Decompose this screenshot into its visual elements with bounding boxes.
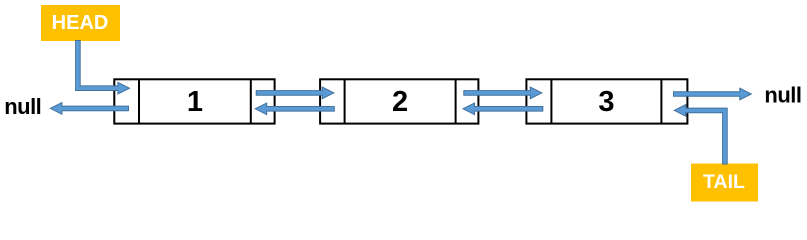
HEAD label box xyxy=(41,5,120,41)
node 2 prev arrow to node 1 (points left) xyxy=(255,103,334,115)
TAIL elbow arrow into node 3 next cell xyxy=(674,105,727,164)
svg-text:null: null xyxy=(764,82,801,107)
node 1 next arrow to node 2 (points right) xyxy=(256,87,334,99)
node 2 next arrow to node 3 (points right) xyxy=(464,87,542,99)
svg-text:2: 2 xyxy=(392,86,408,118)
node 3 next-to-null arrow (points right) xyxy=(674,88,752,100)
svg-text:HEAD: HEAD xyxy=(52,12,109,34)
svg-text:1: 1 xyxy=(187,86,203,118)
node 3 box xyxy=(526,79,687,123)
HEAD elbow arrow into node 1 prev cell xyxy=(76,41,130,95)
node 3 prev arrow to node 2 (points left) xyxy=(463,103,543,115)
node 2 box xyxy=(320,79,478,123)
svg-text:null: null xyxy=(4,94,41,119)
node 1 box xyxy=(114,79,274,123)
node 1 prev-to-null arrow (points left) xyxy=(50,103,128,115)
svg-text:TAIL: TAIL xyxy=(703,171,745,193)
svg-text:3: 3 xyxy=(598,86,614,118)
TAIL label box xyxy=(691,164,758,202)
